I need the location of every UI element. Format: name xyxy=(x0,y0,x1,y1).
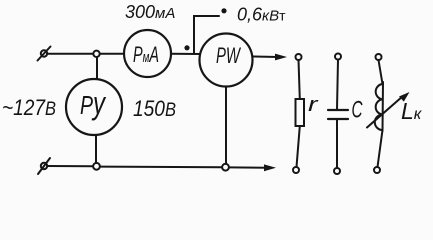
wire PW output arrow xyxy=(253,54,288,61)
wire voltage-coil tap up and over PW xyxy=(194,16,219,53)
wire top: terminal to node A xyxy=(47,53,93,55)
wire bottom rail middle xyxy=(100,166,222,169)
terminal bottom-left xyxy=(38,158,50,174)
node C (junction on bottom rail under PW) xyxy=(222,164,229,171)
branch r : wire bottom xyxy=(297,126,300,167)
wattmeter PW xyxy=(200,34,253,87)
wire node A to ammeter PmA xyxy=(100,53,124,55)
branch C : bottom terminal xyxy=(334,168,340,174)
resistor r xyxy=(296,99,305,126)
svg-text:Ру: Ру xyxy=(80,85,106,121)
capacitor C xyxy=(328,110,348,119)
wire PV to bottom rail xyxy=(95,135,97,163)
dot voltage coil terminal xyxy=(221,8,226,13)
branch r : wire top xyxy=(299,60,300,99)
branch Lk : wire bottom xyxy=(378,130,383,167)
ammeter PmA xyxy=(124,30,171,77)
branch Lk : top terminal xyxy=(376,54,382,60)
branch Lk : wire top xyxy=(379,60,383,84)
dot generator terminal of current coil xyxy=(184,45,189,50)
svg-text:300мА: 300мА xyxy=(125,2,175,22)
svg-text:150В: 150В xyxy=(133,96,176,121)
branch C : wire top xyxy=(337,60,338,110)
wire PW down to node C xyxy=(225,87,227,164)
wire PmA to PW xyxy=(171,53,200,55)
svg-text:C: C xyxy=(352,97,363,124)
inductor Lk coil xyxy=(375,82,383,131)
node B (junction on bottom rail under PV) xyxy=(93,163,100,170)
branch r : top terminal xyxy=(296,54,302,60)
wire bottom rail arrow xyxy=(229,164,276,171)
wire node A down to voltmeter PV xyxy=(96,57,98,79)
branch C : top terminal xyxy=(335,54,341,60)
branch Lk : bottom terminal xyxy=(374,167,380,173)
branch r : bottom terminal xyxy=(293,167,299,173)
svg-text:0,6кВт: 0,6кВт xyxy=(237,5,286,25)
wire bottom rail left xyxy=(47,165,93,167)
voltmeter PV xyxy=(66,79,122,135)
terminal top-left xyxy=(38,47,51,61)
arrow variable inductance xyxy=(367,92,410,128)
branch C : wire bottom xyxy=(336,120,338,168)
svg-text:~127В: ~127В xyxy=(2,95,56,120)
svg-text:PW: PW xyxy=(216,43,242,68)
node A (junction over PV) xyxy=(93,51,99,57)
